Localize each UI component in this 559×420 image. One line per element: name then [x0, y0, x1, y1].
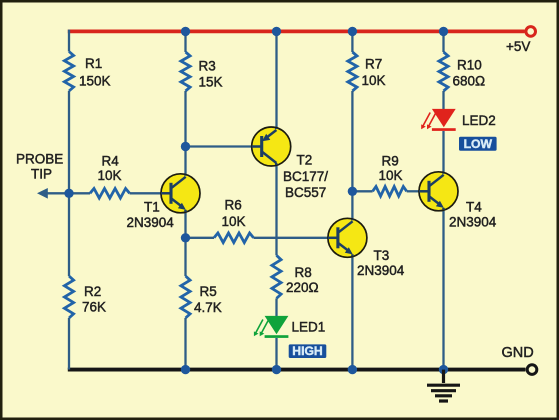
wire	[47, 192, 90, 194]
svg-text:R1: R1	[85, 56, 102, 71]
resistor R4	[90, 189, 130, 199]
wire	[442, 31, 444, 52]
wire	[130, 192, 163, 194]
svg-text:10K: 10K	[98, 168, 122, 183]
node junction	[181, 233, 190, 242]
LED2	[432, 109, 456, 127]
wire	[351, 31, 353, 52]
label LOW	[459, 137, 497, 151]
resistor R9	[373, 187, 407, 197]
wire	[184, 210, 186, 237]
wire	[186, 145, 254, 147]
svg-text:R2: R2	[84, 284, 101, 299]
svg-text:R6: R6	[225, 198, 242, 213]
svg-text:T4: T4	[466, 200, 482, 215]
wire	[184, 31, 186, 52]
svg-text:10K: 10K	[362, 73, 386, 88]
svg-text:LED1: LED1	[292, 320, 326, 335]
wire	[184, 237, 186, 276]
wire	[351, 255, 353, 370]
resistor R8	[272, 255, 281, 298]
transistor T3	[328, 218, 367, 257]
resistor R10	[439, 52, 448, 91]
svg-text:GND: GND	[502, 345, 534, 361]
+5V terminal	[526, 27, 536, 37]
svg-text:T1: T1	[144, 200, 160, 215]
svg-text:LOW: LOW	[464, 137, 493, 151]
svg-text:10K: 10K	[379, 168, 403, 183]
svg-text:150K: 150K	[79, 74, 111, 89]
svg-text:HIGH: HIGH	[292, 344, 322, 358]
ground	[442, 370, 445, 383]
wire	[184, 91, 186, 176]
GND terminal	[527, 365, 537, 375]
svg-text:R5: R5	[200, 284, 217, 299]
node junction	[64, 189, 73, 198]
wire	[407, 190, 421, 192]
+5V supply rail	[68, 30, 525, 34]
svg-text:4.7K: 4.7K	[194, 300, 222, 315]
svg-text:R10: R10	[457, 58, 482, 73]
wire	[351, 91, 353, 221]
svg-text:R7: R7	[365, 57, 382, 72]
svg-text:R8: R8	[295, 265, 312, 280]
resistor R6	[214, 233, 254, 243]
svg-text:680Ω: 680Ω	[453, 74, 486, 89]
node junction	[439, 365, 448, 374]
svg-text:R4: R4	[102, 154, 120, 169]
node junction	[181, 365, 190, 374]
transistor T2	[252, 127, 291, 166]
svg-text:T2: T2	[297, 153, 313, 168]
wire	[275, 31, 277, 129]
svg-text:LED2: LED2	[462, 113, 496, 128]
svg-text:+5V: +5V	[506, 39, 530, 54]
wire	[275, 163, 277, 255]
resistor R1	[64, 52, 73, 92]
svg-text:BC557: BC557	[285, 185, 326, 200]
svg-text:2N3904: 2N3904	[449, 215, 497, 230]
resistor R3	[181, 52, 190, 91]
wire	[442, 131, 444, 174]
node junction	[348, 365, 357, 374]
svg-text:2N3904: 2N3904	[127, 215, 175, 230]
wire	[275, 298, 277, 316]
node junction	[439, 27, 448, 36]
svg-text:15K: 15K	[199, 75, 223, 90]
transistor T4	[419, 172, 458, 211]
wire	[68, 30, 70, 52]
node junction	[181, 27, 190, 36]
wire	[186, 237, 215, 239]
node junction	[181, 142, 190, 151]
transistor T1	[161, 174, 200, 213]
wire	[68, 91, 70, 276]
node junction	[348, 27, 357, 36]
wire	[275, 338, 277, 370]
svg-text:BC177/: BC177/	[283, 169, 328, 184]
resistor R7	[348, 52, 357, 91]
node junction	[348, 187, 357, 196]
wire	[442, 208, 444, 369]
svg-text:76K: 76K	[82, 300, 106, 315]
node junction	[272, 365, 281, 374]
svg-text:R9: R9	[382, 154, 399, 169]
svg-text:10K: 10K	[222, 214, 246, 229]
LED1	[265, 316, 289, 334]
wire	[352, 190, 372, 192]
ground rail	[68, 368, 526, 372]
svg-text:220Ω: 220Ω	[286, 280, 319, 295]
svg-text:2N3904: 2N3904	[357, 263, 405, 278]
resistor R2	[64, 276, 73, 318]
node junction	[272, 27, 281, 36]
svg-text:R3: R3	[199, 59, 216, 74]
wire	[184, 318, 186, 370]
wire	[68, 318, 70, 370]
probe tip arrow	[37, 188, 48, 199]
svg-text:T3: T3	[374, 248, 390, 263]
svg-text:PROBE: PROBE	[16, 152, 63, 167]
resistor R5	[181, 276, 190, 318]
svg-text:TIP: TIP	[31, 166, 52, 181]
label HIGH	[289, 344, 327, 358]
wire	[442, 91, 444, 110]
wire	[254, 237, 330, 239]
